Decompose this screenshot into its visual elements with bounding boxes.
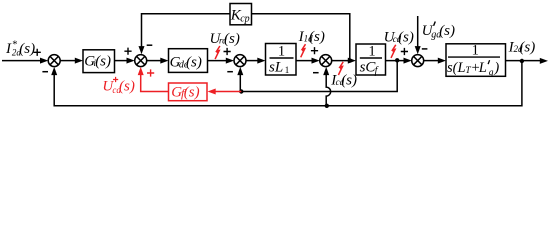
arrowhead into plant block [438,58,446,64]
arrowhead output I2d [540,58,548,64]
block 1/sL1 [266,44,297,76]
wire: plant block to output I2d [506,60,543,62]
node dot: Ucd tap [395,58,399,62]
wire: summer5 to plant block [424,60,439,62]
block Kcp [230,4,252,25]
node dot: Kcp tap on Icd wire [348,58,352,62]
arrowhead up into summer1 bottom [51,67,57,75]
svg-text:1: 1 [285,65,290,75]
svg-text:sL: sL [269,60,283,76]
wire: red node to Gf input [214,91,242,93]
wire: summer1 to Gi [60,60,76,62]
summer 2 [135,55,147,67]
arrowhead up into summer4 bottom [323,67,329,75]
arrowhead into Gde [160,58,168,64]
arrowhead into summer4 [312,58,320,64]
arrowhead red up into summer2 bottom [138,67,144,75]
sampling bolt on Icd wire [338,62,343,75]
label I*2d(s) reference input [5,40,35,58]
wire: Kcp feedback from Icd tap up and left into summer2 [142,14,350,61]
svg-text:1: 1 [278,43,285,59]
svg-text:(s): (s) [95,54,111,70]
arrowhead into summer5 [404,58,412,64]
svg-text:cp: cp [240,13,249,24]
svg-text:(s): (s) [439,23,455,39]
svg-text:(s): (s) [184,85,200,101]
svg-text:(s): (s) [519,40,535,56]
arrowhead into 1/sCf [348,58,356,64]
sign + at summer2 left [124,48,131,55]
svg-text:1: 1 [472,43,479,59]
svg-text:L: L [478,60,487,76]
sampling bolt on Ucd wire [391,45,396,58]
wire: summer2 to Gde [147,60,161,62]
wire: red Gf output to summer2 bottom [141,74,169,92]
text Gi(s) [84,54,111,70]
node dot: output tap [520,59,524,63]
sampling bolt on Urd wire [215,46,220,59]
svg-text:(s): (s) [341,73,357,89]
wire: Gi to summer2 [115,60,130,62]
text fraction 1/sCf [360,43,379,76]
wire: U'gd source drop into summer5 [417,16,419,47]
block Gde(s) [169,49,208,73]
fraction bar 1/sCf [360,57,382,59]
wire: summer4 bottom drop with hop over Ucd line [326,74,331,106]
svg-text:(s): (s) [309,29,325,45]
fraction bar 1/sL1 [270,57,294,59]
block Gf(s) red [169,83,208,101]
arrowhead red into Gf right edge [208,89,216,95]
red feedback Gf path [141,74,242,92]
sign + at summer4 left [311,47,318,54]
label Urd(s) [210,31,240,47]
wire: Ucd tap down and left to node below summer3 [241,61,397,92]
text Gf(s) red [171,85,199,101]
arrowhead into summer3 [226,58,234,64]
svg-text:(s): (s) [186,55,202,71]
text Gde(s) [170,55,202,71]
sampling bolt on I1d wire [301,44,306,57]
arrowhead into 1/sL1 [257,58,265,64]
svg-text:(s): (s) [398,30,414,46]
svg-text:g: g [489,68,494,78]
sign - at summer3 bottom (Ucd decoupling input) [227,71,233,73]
svg-text:(s): (s) [224,31,240,47]
summer 5 [412,55,424,67]
svg-text:): ) [493,60,499,76]
arrowhead up into summer3 bottom [237,67,243,75]
node dot: Ucd line split below summer3 [239,89,243,93]
block plant 1/(s(LT+L'g)) [446,44,506,77]
wire: summer3 to block 1/sL1 [246,60,258,62]
block 1/sCf [356,44,386,75]
label Icd(s) [330,73,357,89]
arrowhead into Gi [75,58,83,64]
svg-text:(s): (s) [19,41,35,57]
svg-text:s(L: s(L [447,60,466,76]
label red U+cd(s) [102,77,134,95]
svg-text:1: 1 [368,43,375,59]
node dot: bottom line below summer4 [325,104,329,108]
arrowhead into summer2 [127,58,135,64]
wire: bottom I2d feedback line [54,61,522,106]
summer 4 [320,55,332,67]
sign + at summer1 left [34,49,41,56]
svg-text:T: T [465,66,471,76]
wire: 1/sL1 to summer4 [296,60,314,62]
arrowhead Kcp down into summer2 top [139,46,145,54]
sign + at summer3 left [224,48,231,55]
wire: 1/sCf to summer5 [386,60,407,62]
fraction bar plant [448,56,500,58]
sign - at summer1 bottom [42,71,48,73]
label Ucd(s) [384,30,414,46]
summer 1 [48,55,60,67]
sign + at summer5 left [401,48,408,55]
sign - at summer2 top (Kcp input) [147,44,153,46]
wire: summer4 to block 1/sCf [332,60,349,62]
text fraction plant 1 over s(LT+L'g) [447,43,499,78]
sign red + at summer2 bottom (Gf input) [147,69,154,76]
arrowhead U'gd down into summer5 top [415,46,421,54]
label I1d(s) [298,29,325,45]
text fraction 1/sL1 [269,43,289,75]
arrowhead into summer1 [40,58,48,64]
svg-text:(s): (s) [119,79,135,95]
text Kcp [230,8,250,25]
wire: Gde to summer3 [208,60,229,62]
wire: reference input into summer 1 [2,60,42,62]
block Gi(s) [83,50,115,73]
summer 3 [234,55,246,67]
wire: node up into summer3 bottom [239,74,241,92]
sign - at summer4 bottom (I2d input) [313,72,319,74]
label I2d(s) output [508,40,536,56]
sign - at summer5 top (U'gd input) [422,48,428,50]
label U'gd(s) source [422,22,455,41]
